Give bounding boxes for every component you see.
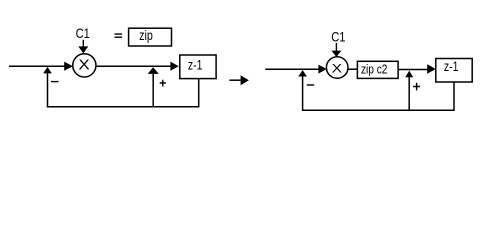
wire: left input: [9, 65, 66, 67]
multiplier node (left): [73, 54, 96, 77]
delay block (left): z-1: [180, 55, 216, 79]
wire: multiplier to delay (left): [96, 65, 171, 67]
arrowhead: right plus junction: [405, 71, 413, 78]
wire: left delay output drop: [198, 79, 200, 107]
wire: coefficient box to delay (right): [398, 69, 428, 71]
label: plus sign (right): [413, 83, 420, 91]
arrowhead: right input into multiplier: [318, 65, 326, 74]
svg-text:z-1: z-1: [444, 59, 459, 74]
arrowhead: C1 into multiplier (left): [78, 46, 88, 53]
wire: right feedback riser at minus junction: [302, 72, 304, 110]
wire: right multiplier to coefficient box: [348, 68, 358, 70]
arrow: transform separator: [229, 75, 249, 85]
arrowhead: into left delay: [170, 62, 178, 71]
wire: left feedback riser at plus junction: [152, 70, 154, 107]
svg-text:zip: zip: [139, 27, 153, 43]
arrowhead: left input into multiplier: [64, 62, 73, 71]
wire: C1 drop (right): [335, 43, 337, 52]
wire: C1 drop (left): [82, 40, 84, 48]
label: minus sign (left): [51, 81, 59, 82]
label: minus sign (right): [307, 84, 314, 85]
delay block (right): z-1: [436, 59, 472, 83]
label: plus sign (left): [160, 80, 166, 87]
svg-text:C1: C1: [76, 25, 90, 41]
arrowhead: right minus junction: [298, 70, 307, 77]
multiplier node (right): [326, 57, 348, 79]
arrowhead: left minus junction: [43, 67, 52, 74]
coefficient box (right): zip c2: [357, 61, 398, 78]
label: equals sign: [115, 34, 123, 37]
svg-text:X: X: [78, 57, 89, 74]
svg-text:C1: C1: [331, 28, 345, 44]
arrowhead: into right delay: [427, 64, 436, 74]
svg-text:zip c2: zip c2: [361, 61, 388, 76]
wire: right feedback riser at plus junction: [408, 73, 410, 110]
svg-text:z-1: z-1: [188, 57, 203, 73]
arrowhead: C1 into multiplier (right): [331, 51, 341, 57]
svg-text:X: X: [332, 63, 343, 75]
arrowhead: left plus junction: [148, 67, 159, 74]
wire: left feedback riser at minus junction: [47, 70, 49, 107]
coefficient box (left): zip: [129, 28, 172, 46]
wire: right delay output drop: [453, 83, 455, 111]
wire: right feedback bottom: [302, 109, 455, 111]
wire: right input: [265, 68, 320, 70]
wire: left feedback bottom: [47, 106, 200, 108]
